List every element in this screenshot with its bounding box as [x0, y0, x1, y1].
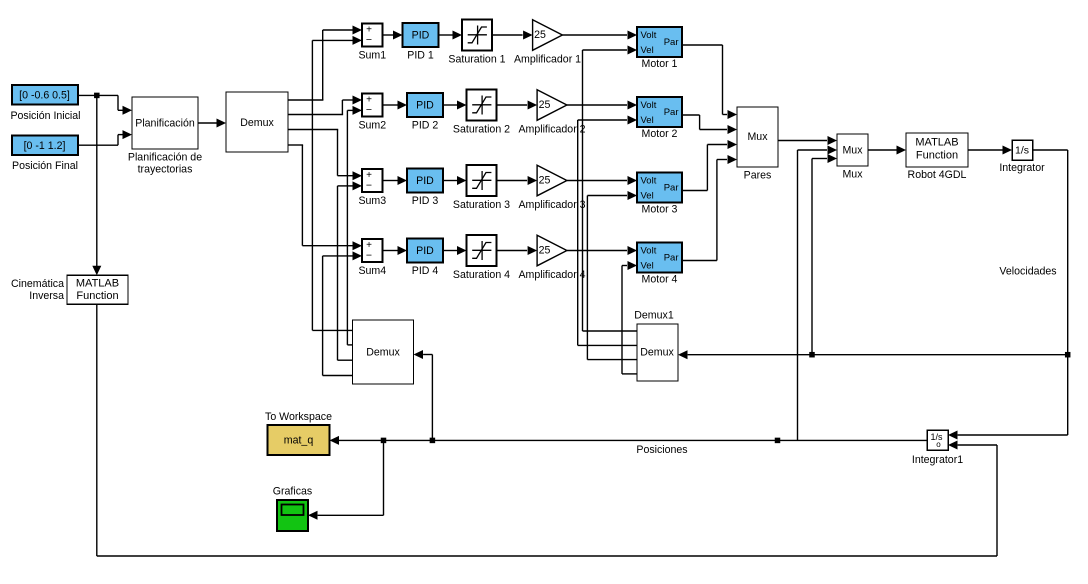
svg-text:trayectorias: trayectorias	[138, 163, 193, 175]
wire Cinemática Inversa output feedback to Integrator1 x0	[97, 304, 997, 556]
motor block Motor 4	[637, 243, 682, 273]
node junction Posiciones to Graficas drop	[381, 438, 387, 444]
wire Demux2 out2 to Sum2 minus	[347, 106, 362, 345]
MATLAB Function block Cinemática Inversa	[67, 275, 128, 304]
svg-text:Par: Par	[664, 253, 679, 264]
wire Sum1 to PID 1	[383, 31, 403, 40]
svg-text:Motor 3: Motor 3	[642, 204, 678, 216]
svg-text:PID 3: PID 3	[412, 195, 439, 207]
svg-text:Integrator1: Integrator1	[912, 454, 963, 466]
svg-text:PID: PID	[416, 245, 434, 257]
svg-text:Volt: Volt	[641, 100, 657, 111]
saturation block Saturation 2	[467, 90, 497, 121]
wire Robot 4GDL to Integrator	[968, 146, 1012, 155]
wire Amplificador 1 to Motor 1 Volt input	[562, 31, 637, 40]
wire Demux out1 to Sum1 plus	[288, 26, 362, 101]
wire Sum2 to PID 2	[383, 101, 408, 110]
svg-text:Motor 2: Motor 2	[642, 128, 678, 140]
svg-text:Demux1: Demux1	[634, 309, 674, 321]
wire Integrator output down right side to Integrator1 in1	[948, 150, 1068, 440]
integrator block Integrator1 (flipped, 1/s xo)	[927, 430, 948, 450]
svg-text:Cinemática: Cinemática	[11, 278, 64, 290]
node junction on Posición Inicial wire	[94, 93, 100, 99]
wire branch down to Cinemática Inversa	[92, 95, 101, 275]
wire Planificación to Demux	[198, 119, 226, 128]
svg-text:Function: Function	[916, 149, 958, 161]
gain block Amplificador 3 (triangle, gain 25)	[537, 165, 567, 196]
MATLAB Function block Robot 4GDL	[906, 133, 968, 167]
svg-text:PID: PID	[416, 175, 434, 187]
wire Saturation 2 to Amplificador 2	[497, 101, 538, 110]
svg-text:o: o	[936, 440, 941, 449]
motor block Motor 1	[637, 27, 682, 57]
scope block Graficas	[277, 500, 308, 531]
svg-text:To Workspace: To Workspace	[265, 411, 332, 423]
integrator block Integrator (1/s)	[1012, 140, 1033, 160]
svg-text:PID 4: PID 4	[412, 265, 439, 277]
gain block Amplificador 4 (triangle, gain 25)	[537, 235, 567, 266]
wire Mux to Robot 4GDL	[868, 146, 906, 155]
wire positions riser to Mux in2	[798, 146, 838, 441]
svg-text:25: 25	[539, 99, 551, 111]
motor block Motor 3	[637, 173, 682, 203]
saturation block Saturation 3	[467, 165, 497, 196]
constant block Posición Final [0 -1 1.2]	[12, 136, 78, 156]
svg-text:Vel: Vel	[641, 45, 654, 56]
label Planificación de trayectorias	[128, 151, 202, 175]
gain block Amplificador 2 (triangle, gain 25)	[537, 90, 567, 121]
svg-text:Sum1: Sum1	[358, 49, 386, 61]
wire PID 4 to Saturation 4	[443, 246, 467, 255]
svg-text:Vel: Vel	[641, 261, 654, 272]
wire Motor 4 Par output to Pares in4	[682, 155, 737, 261]
svg-text:Mux: Mux	[747, 131, 768, 143]
constant block Posición Inicial [0 -0.6 0.5]	[12, 85, 78, 105]
svg-text:Function: Function	[76, 290, 118, 302]
saturation block Saturation 1	[462, 20, 492, 51]
motor block Motor 2	[637, 97, 682, 127]
svg-text:Pares: Pares	[744, 169, 772, 181]
svg-text:Amplificador 1: Amplificador 1	[514, 53, 581, 65]
svg-text:Integrator: Integrator	[999, 162, 1045, 174]
svg-text:Volt: Volt	[641, 246, 657, 257]
PID controller block PID 2	[407, 93, 443, 117]
saturation block Saturation 4	[467, 235, 497, 266]
mux block Mux	[837, 134, 868, 166]
svg-text:−: −	[366, 104, 372, 116]
svg-text:Saturation 3: Saturation 3	[453, 199, 510, 211]
wire positions riser to Demux input	[414, 350, 433, 440]
svg-text:Volt: Volt	[641, 30, 657, 41]
wire Sum4 to PID 4	[383, 246, 408, 255]
svg-text:−: −	[366, 34, 372, 46]
wire velocities riser to Mux in3	[812, 154, 837, 355]
svg-text:Inversa: Inversa	[29, 290, 64, 302]
svg-text:Planificación de: Planificación de	[128, 151, 202, 163]
demux block Demux (trajectory)	[226, 92, 288, 152]
svg-text:Demux: Demux	[640, 346, 674, 358]
mux block Pares	[737, 107, 778, 167]
wire Demux out3 to Sum3 plus	[288, 130, 362, 181]
svg-text:25: 25	[539, 245, 551, 257]
svg-text:Par: Par	[664, 183, 679, 194]
demux block Demux1 (flipped)	[637, 324, 678, 381]
svg-text:Saturation 2: Saturation 2	[453, 123, 510, 135]
wire Demux2 out4 to Sum4 minus	[323, 251, 362, 375]
label Cinemática Inversa	[11, 278, 64, 302]
svg-text:MATLAB: MATLAB	[915, 136, 958, 148]
wire Motor 2 Par output to Pares in2	[682, 115, 737, 134]
wire Saturation 1 to Amplificador 1	[492, 31, 533, 40]
svg-text:Vel: Vel	[641, 115, 654, 126]
svg-text:Mux: Mux	[842, 144, 863, 156]
wire Motor 3 Par output to Pares in3	[682, 140, 737, 191]
wire PID 3 to Saturation 3	[443, 176, 467, 185]
svg-text:Vel: Vel	[641, 191, 654, 202]
svg-text:PID: PID	[416, 99, 434, 111]
svg-text:−: −	[366, 179, 372, 191]
subsystem block Planificación	[132, 97, 198, 149]
svg-text:Demux: Demux	[240, 117, 274, 129]
wire PID 1 to Saturation 1	[439, 31, 463, 40]
wire Sum3 to PID 3	[383, 176, 408, 185]
wire Posición Inicial to Planificación in1	[78, 95, 132, 114]
wire Saturation 4 to Amplificador 4	[497, 246, 538, 255]
wire Demux1 out3 to Motor 3 Vel input	[587, 191, 637, 360]
svg-text:Amplificador 4: Amplificador 4	[518, 269, 585, 281]
wire Amplificador 2 to Motor 2 Volt input	[567, 101, 637, 110]
svg-text:Robot 4GDL: Robot 4GDL	[908, 169, 967, 181]
wire Pares to Mux in1	[778, 136, 837, 145]
node junction on Posiciones wire	[775, 438, 781, 444]
PID controller block PID 1	[403, 23, 439, 47]
svg-text:PID 1: PID 1	[407, 49, 434, 61]
svg-text:1/s: 1/s	[1015, 144, 1029, 156]
svg-text:Planificación: Planificación	[135, 117, 195, 129]
wire Demux1 out4 to Motor 4 Vel input	[622, 261, 637, 374]
svg-text:Velocidades: Velocidades	[999, 265, 1056, 277]
PID controller block PID 4	[407, 239, 443, 263]
svg-text:[0 -0.6 0.5]: [0 -0.6 0.5]	[19, 90, 70, 102]
node junction velocities branch	[1065, 352, 1071, 358]
demux block Demux (positions, flipped)	[353, 320, 414, 384]
svg-text:Motor 1: Motor 1	[642, 58, 678, 70]
svg-text:mat_q: mat_q	[284, 434, 314, 446]
svg-text:Motor 4: Motor 4	[642, 274, 678, 286]
wire Integrator1 output (Posiciones) to mat_q	[330, 436, 928, 445]
wire drop to Graficas	[308, 440, 384, 519]
svg-text:PID 2: PID 2	[412, 119, 439, 131]
wire Demux2 out1 to Sum1 minus	[312, 36, 362, 331]
wire Demux1 out1 to Motor 1 Vel input	[583, 46, 638, 332]
svg-text:−: −	[366, 249, 372, 261]
wire Saturation 3 to Amplificador 3	[497, 176, 538, 185]
wire Demux out2 to Sum2 plus	[288, 96, 362, 115]
svg-text:Posición Inicial: Posición Inicial	[10, 110, 80, 122]
wire PID 2 to Saturation 2	[443, 101, 467, 110]
svg-text:Par: Par	[664, 37, 679, 48]
svg-text:Sum4: Sum4	[358, 265, 386, 277]
gain block Amplificador 1 (triangle, gain 25)	[533, 20, 563, 51]
svg-text:Saturation 1: Saturation 1	[448, 53, 505, 65]
svg-text:Sum3: Sum3	[358, 195, 386, 207]
svg-text:MATLAB: MATLAB	[76, 278, 119, 290]
svg-text:Posición Final: Posición Final	[12, 160, 78, 172]
sum block Sum3	[362, 169, 383, 192]
svg-text:Volt: Volt	[641, 176, 657, 187]
svg-text:Demux: Demux	[366, 346, 400, 358]
svg-text:Saturation 4: Saturation 4	[453, 269, 510, 281]
PID controller block PID 3	[407, 169, 443, 193]
wire Posición Final to Planificación in2	[78, 130, 132, 145]
wire Amplificador 3 to Motor 3 Volt input	[567, 176, 637, 185]
svg-text:Par: Par	[664, 107, 679, 118]
svg-text:Amplificador 3: Amplificador 3	[518, 199, 585, 211]
svg-text:Sum2: Sum2	[358, 119, 386, 131]
sum block Sum2	[362, 94, 383, 117]
svg-text:25: 25	[539, 175, 551, 187]
wire Demux2 out3 to Sum3 minus	[338, 181, 363, 360]
svg-text:Graficas: Graficas	[273, 485, 312, 497]
sum block Sum1	[362, 24, 383, 47]
sum block Sum4	[362, 239, 383, 262]
svg-text:PID: PID	[412, 29, 430, 41]
to-workspace block mat_q	[268, 425, 330, 455]
node junction Posiciones to Demux riser	[430, 438, 436, 444]
wire Motor 1 Par output to Pares in1	[682, 45, 737, 119]
node junction velocities to Mux in3	[809, 352, 815, 358]
wire Demux out4 to Sum4 plus	[288, 145, 362, 250]
svg-text:Posiciones: Posiciones	[636, 444, 687, 456]
svg-text:Amplificador 2: Amplificador 2	[518, 123, 585, 135]
svg-text:[0 -1 1.2]: [0 -1 1.2]	[24, 140, 66, 152]
wire Amplificador 4 to Motor 4 Volt input	[567, 246, 637, 255]
svg-text:25: 25	[534, 29, 546, 41]
wire Demux1 out2 to Motor 2 Vel input	[578, 116, 637, 346]
wire velocities to Demux1 input	[678, 350, 1068, 359]
svg-text:Mux: Mux	[842, 168, 863, 180]
